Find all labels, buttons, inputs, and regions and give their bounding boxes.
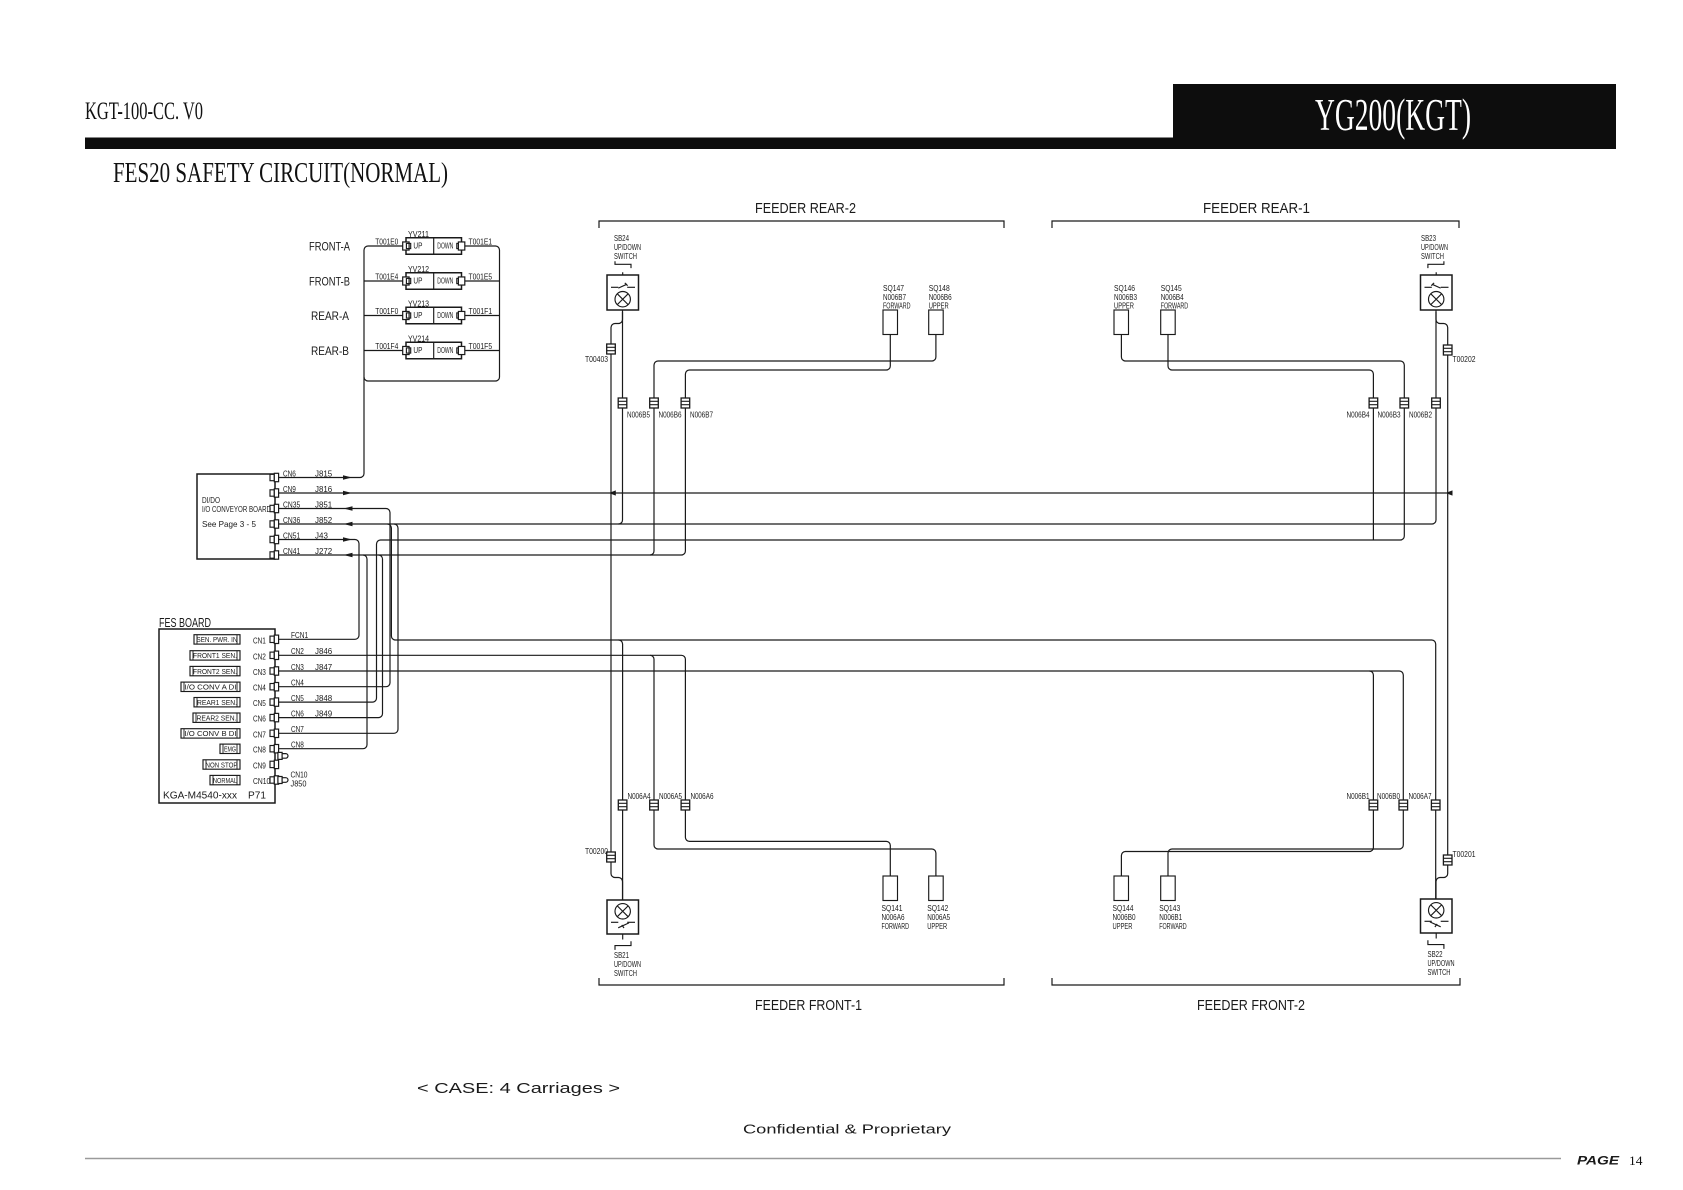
label box FRONT2 SEN. (CN3) bbox=[190, 666, 240, 676]
wire valve right rail and bottom return bbox=[364, 246, 500, 381]
switch SB22 bbox=[1421, 899, 1453, 933]
pin CN9 connector bbox=[270, 760, 279, 768]
pin CN51 bbox=[270, 535, 279, 543]
svg-text:UPPER: UPPER bbox=[1113, 922, 1133, 931]
solenoid valve YV214 bbox=[403, 334, 465, 359]
svg-text:DOWN: DOWN bbox=[437, 311, 453, 320]
wire valve left rail row segments bbox=[364, 281, 403, 351]
connector N006A4 bbox=[618, 800, 627, 810]
svg-text:CN4: CN4 bbox=[291, 678, 304, 688]
svg-text:SQ144: SQ144 bbox=[1113, 904, 1134, 913]
svg-text:N006A5: N006A5 bbox=[927, 913, 950, 922]
footer rule bbox=[85, 1158, 1561, 1160]
switch SB21 operator bbox=[615, 934, 631, 950]
pin CN41 bbox=[270, 551, 279, 559]
svg-text:YV211: YV211 bbox=[408, 229, 429, 239]
svg-text:P71: P71 bbox=[248, 791, 266, 802]
wire J852 CN36 to N006B2/SB23 bbox=[278, 312, 1436, 524]
wire J851 CN35 to CN4 bbox=[278, 509, 390, 687]
svg-text:J272: J272 bbox=[315, 546, 332, 556]
svg-text:CN51: CN51 bbox=[283, 530, 300, 540]
connector T00201 bbox=[1443, 855, 1452, 865]
wire SB24 lamp to J852 row via N006B5 bbox=[619, 312, 623, 524]
svg-text:CN35: CN35 bbox=[283, 499, 300, 509]
svg-text:N006B1: N006B1 bbox=[1159, 913, 1182, 922]
svg-text:NON STOP: NON STOP bbox=[206, 760, 238, 769]
FES board bbox=[159, 629, 275, 803]
pin CN6 bbox=[270, 473, 279, 481]
svg-text:DOWN: DOWN bbox=[437, 242, 453, 251]
connector N006A7 bbox=[1431, 800, 1440, 810]
wire J846 CN2 to N006A6/SQ141 bbox=[278, 655, 890, 876]
svg-text:CN4: CN4 bbox=[253, 683, 266, 693]
svg-text:T001F0: T001F0 bbox=[375, 306, 398, 316]
svg-text:UP/DOWN: UP/DOWN bbox=[614, 960, 641, 969]
svg-text:N006B7: N006B7 bbox=[690, 411, 713, 420]
svg-text:< CASE: 4 Carriages >: < CASE: 4 Carriages > bbox=[417, 1080, 620, 1097]
svg-text:FEEDER REAR-2: FEEDER REAR-2 bbox=[755, 200, 856, 217]
wire J816 bus CN9 to switch chains bbox=[278, 492, 1448, 494]
svg-text:T001F4: T001F4 bbox=[375, 341, 398, 351]
svg-text:SQ148: SQ148 bbox=[929, 284, 950, 293]
pin CN6 connector bbox=[270, 713, 279, 721]
svg-text:SB22: SB22 bbox=[1428, 950, 1443, 959]
wire N006B1 to SQ144 bbox=[1121, 671, 1373, 876]
label box EMG (CN8) bbox=[220, 744, 240, 754]
label box REAR2 SEN. (CN6) bbox=[193, 713, 240, 723]
connector N006B1 bbox=[1369, 800, 1378, 810]
svg-text:14: 14 bbox=[1629, 1153, 1643, 1168]
junction J816/T00202 chain bbox=[1446, 490, 1453, 495]
svg-text:SWITCH: SWITCH bbox=[614, 969, 637, 978]
arrow on J43 wire bbox=[343, 537, 352, 541]
svg-text:PAGE: PAGE bbox=[1577, 1156, 1619, 1168]
svg-text:REAR-B: REAR-B bbox=[311, 346, 349, 358]
connector N006B3 bbox=[1400, 398, 1409, 408]
pin CN4 connector bbox=[270, 683, 279, 691]
svg-text:N006B3: N006B3 bbox=[1378, 411, 1401, 420]
svg-text:DOWN: DOWN bbox=[437, 346, 453, 355]
svg-text:SQ141: SQ141 bbox=[882, 904, 903, 913]
svg-text:FORWARD: FORWARD bbox=[1159, 922, 1187, 931]
svg-text:REAR-A: REAR-A bbox=[311, 311, 349, 323]
pin CN10 connector bbox=[270, 776, 279, 784]
svg-text:CN8: CN8 bbox=[253, 745, 266, 755]
svg-text:T00200: T00200 bbox=[585, 847, 608, 856]
svg-text:DOWN: DOWN bbox=[437, 277, 453, 286]
svg-text:EMG: EMG bbox=[224, 745, 236, 754]
svg-text:J43: J43 bbox=[315, 530, 328, 540]
pin CN35 bbox=[270, 504, 279, 512]
wire N006A5 to SQ142 bbox=[650, 655, 936, 876]
wire SB23 through T00202 chain to SB22 bbox=[1436, 310, 1448, 899]
header bar bbox=[85, 138, 1616, 150]
DI/DO I/O conveyor board bbox=[197, 474, 275, 559]
svg-text:CN9: CN9 bbox=[253, 760, 266, 770]
svg-text:FRONT2 SEN.: FRONT2 SEN. bbox=[193, 667, 237, 676]
feeder front-1 bracket bbox=[599, 978, 1004, 985]
svg-text:SB23: SB23 bbox=[1421, 234, 1436, 243]
svg-text:CN6: CN6 bbox=[283, 468, 296, 478]
svg-text:CN8: CN8 bbox=[291, 740, 304, 750]
svg-text:SQ147: SQ147 bbox=[883, 284, 904, 293]
arrow on J272 wire bbox=[344, 553, 353, 557]
svg-text:CN2: CN2 bbox=[253, 651, 266, 661]
svg-text:CN36: CN36 bbox=[283, 515, 300, 525]
wire J848 CN5 to rear-1 sensors bbox=[278, 335, 1404, 703]
svg-text:N006B5: N006B5 bbox=[627, 411, 650, 420]
svg-text:J850: J850 bbox=[291, 779, 307, 789]
svg-text:N006B1: N006B1 bbox=[1347, 792, 1370, 801]
svg-text:CN1: CN1 bbox=[253, 635, 266, 645]
svg-text:T001E4: T001E4 bbox=[375, 271, 398, 281]
svg-text:N006A5: N006A5 bbox=[659, 792, 682, 801]
sensor SQ142 bbox=[929, 876, 944, 901]
svg-text:J852: J852 bbox=[315, 515, 332, 525]
pin CN7 connector bbox=[270, 729, 279, 737]
header title block YG200(KGT) bbox=[1173, 84, 1616, 149]
svg-text:N006B4: N006B4 bbox=[1347, 411, 1370, 420]
svg-text:N006A7: N006A7 bbox=[1409, 792, 1432, 801]
plug stub on CN10 bbox=[278, 777, 288, 784]
svg-text:FES BOARD: FES BOARD bbox=[159, 616, 211, 630]
sensor SQ141 bbox=[883, 876, 898, 901]
wire CN6 J815 to valve left rail bbox=[278, 246, 403, 478]
svg-text:J848: J848 bbox=[315, 693, 332, 703]
junction J816/T00403 chain bbox=[609, 490, 616, 495]
svg-text:T00201: T00201 bbox=[1453, 850, 1476, 859]
svg-text:UPPER: UPPER bbox=[1114, 302, 1134, 311]
wire J852 branch to CN7 bbox=[278, 524, 398, 733]
switch SB24 bbox=[607, 275, 639, 310]
svg-text:T00202: T00202 bbox=[1453, 355, 1476, 364]
svg-text:UP: UP bbox=[413, 346, 422, 355]
svg-text:T001E0: T001E0 bbox=[375, 236, 398, 246]
wire N006B4 to SQ145 bbox=[1168, 335, 1373, 541]
pin CN9 bbox=[270, 489, 279, 497]
wire N006B6 to SQ148 bbox=[650, 335, 936, 556]
svg-text:J846: J846 bbox=[315, 646, 332, 656]
svg-text:CN6: CN6 bbox=[291, 708, 304, 718]
svg-text:CN5: CN5 bbox=[253, 698, 266, 708]
svg-text:N006A6: N006A6 bbox=[691, 792, 714, 801]
svg-text:CN5: CN5 bbox=[291, 693, 304, 703]
svg-text:YG200(KGT): YG200(KGT) bbox=[1315, 90, 1471, 140]
svg-text:N006A6: N006A6 bbox=[882, 913, 905, 922]
label box I/O CONV B DI (CN7) bbox=[181, 729, 240, 739]
svg-text:T00403: T00403 bbox=[585, 355, 608, 364]
switch SB21 bbox=[607, 900, 639, 934]
svg-text:SQ143: SQ143 bbox=[1159, 904, 1180, 913]
svg-text:FCN1: FCN1 bbox=[291, 630, 308, 640]
feeder rear-2 bracket bbox=[599, 221, 1004, 228]
svg-text:J847: J847 bbox=[315, 662, 332, 672]
svg-text:SQ142: SQ142 bbox=[927, 904, 948, 913]
svg-text:UP: UP bbox=[413, 242, 422, 251]
connector T00202 bbox=[1443, 345, 1452, 355]
svg-text:FEEDER FRONT-2: FEEDER FRONT-2 bbox=[1197, 997, 1305, 1014]
svg-text:N006B0: N006B0 bbox=[1113, 913, 1136, 922]
svg-text:CN9: CN9 bbox=[283, 484, 296, 494]
connector N006B0 bbox=[1399, 800, 1408, 810]
svg-text:I/O CONV B DI: I/O CONV B DI bbox=[185, 729, 237, 738]
svg-text:Confidential & Proprietary: Confidential & Proprietary bbox=[743, 1122, 952, 1137]
svg-text:CN7: CN7 bbox=[253, 729, 266, 739]
svg-text:N006B0: N006B0 bbox=[1377, 792, 1400, 801]
svg-text:UPPER: UPPER bbox=[927, 922, 947, 931]
pin CN5 connector bbox=[270, 698, 279, 706]
switch SB23 bbox=[1421, 275, 1453, 310]
wire sensor power row to SB21/SB22 lamps bbox=[387, 524, 1435, 899]
svg-text:CN10: CN10 bbox=[253, 776, 270, 786]
connector T00403 bbox=[607, 344, 616, 354]
connector T00200 bbox=[607, 852, 616, 862]
svg-text:I/O CONV A DI: I/O CONV A DI bbox=[185, 683, 237, 692]
label box FRONT1 SEN. (CN2) bbox=[190, 651, 240, 661]
connector N006B6 bbox=[650, 398, 659, 408]
svg-text:N006B6: N006B6 bbox=[659, 411, 682, 420]
svg-text:SQ146: SQ146 bbox=[1114, 284, 1135, 293]
svg-text:T001F5: T001F5 bbox=[469, 341, 493, 351]
svg-text:N006A4: N006A4 bbox=[628, 792, 651, 801]
svg-text:CN3: CN3 bbox=[291, 662, 304, 672]
svg-text:UP/DOWN: UP/DOWN bbox=[1421, 243, 1448, 252]
arrow on J816 wire bbox=[343, 491, 352, 495]
svg-text:SB21: SB21 bbox=[614, 951, 629, 960]
arrow on J852 wire bbox=[344, 522, 353, 526]
svg-text:UP/DOWN: UP/DOWN bbox=[614, 243, 641, 252]
sensor SQ144 bbox=[1114, 876, 1129, 901]
arrow on J815 wire bbox=[343, 475, 352, 479]
svg-text:CN6: CN6 bbox=[253, 714, 266, 724]
svg-text:NORMAL: NORMAL bbox=[213, 776, 237, 785]
switch SB23 operator bbox=[1428, 261, 1444, 275]
pin CN36 bbox=[270, 520, 279, 528]
connector N006B4 bbox=[1369, 398, 1378, 408]
svg-text:SQ145: SQ145 bbox=[1161, 284, 1182, 293]
svg-text:J816: J816 bbox=[315, 484, 332, 494]
connector N006B5 bbox=[618, 398, 627, 408]
switch SB24 operator bbox=[615, 261, 631, 275]
connector N006A6 bbox=[681, 800, 690, 810]
sensor SQ143 bbox=[1161, 876, 1176, 901]
svg-text:UP: UP bbox=[413, 277, 422, 286]
svg-text:REAR2 SEN.: REAR2 SEN. bbox=[197, 714, 237, 723]
svg-text:N006B2: N006B2 bbox=[1409, 411, 1432, 420]
pin CN3 connector bbox=[270, 667, 279, 675]
svg-text:SEN. PWR. IN: SEN. PWR. IN bbox=[197, 635, 238, 644]
svg-text:FRONT-A: FRONT-A bbox=[309, 242, 350, 254]
svg-text:FRONT-B: FRONT-B bbox=[309, 277, 350, 289]
label box I/O CONV A DI (CN4) bbox=[181, 682, 240, 692]
svg-text:UP/DOWN: UP/DOWN bbox=[1428, 959, 1455, 968]
wire branch to SB21 lamp bbox=[619, 640, 623, 900]
svg-text:T001F1: T001F1 bbox=[469, 306, 493, 316]
feeder front-2 bracket bbox=[1052, 978, 1460, 985]
svg-text:KGT-100-CC. V0: KGT-100-CC. V0 bbox=[85, 98, 203, 125]
svg-text:J815: J815 bbox=[315, 468, 332, 478]
sensor SQ145 bbox=[1161, 310, 1176, 335]
wire branch to CN8 EMG bbox=[278, 555, 367, 749]
switch SB22 operator bbox=[1428, 933, 1444, 949]
svg-text:FORWARD: FORWARD bbox=[1161, 302, 1189, 311]
connector N006A5 bbox=[650, 800, 659, 810]
svg-text:YV213: YV213 bbox=[408, 299, 429, 309]
svg-text:KGA-M4540-xxx: KGA-M4540-xxx bbox=[163, 791, 237, 802]
wire J43 CN51 to FCN1 bbox=[278, 540, 359, 640]
label box NORMAL (CN10) bbox=[210, 775, 240, 785]
connector N006B2 bbox=[1432, 398, 1441, 408]
svg-text:SB24: SB24 bbox=[614, 234, 629, 243]
plug stub below CN8 bbox=[278, 752, 288, 759]
wire J272 row to N006B7/SQ147 bbox=[278, 335, 890, 556]
svg-text:CN7: CN7 bbox=[291, 724, 304, 734]
svg-text:FORWARD: FORWARD bbox=[882, 922, 910, 931]
pin CN8 connector bbox=[270, 745, 279, 753]
svg-text:See Page 3 - 5: See Page 3 - 5 bbox=[202, 519, 256, 529]
pin CN1 connector bbox=[270, 635, 279, 643]
pin CN2 connector bbox=[270, 651, 279, 659]
svg-text:FORWARD: FORWARD bbox=[883, 302, 911, 311]
solenoid valve YV213 bbox=[403, 299, 465, 324]
wire SB24 through T00403 chain to SB21 bbox=[611, 310, 623, 900]
svg-text:FEEDER FRONT-1: FEEDER FRONT-1 bbox=[755, 997, 862, 1014]
sensor SQ147 bbox=[883, 310, 898, 335]
svg-text:REAR1 SEN.: REAR1 SEN. bbox=[197, 698, 237, 707]
svg-text:FEEDER REAR-1: FEEDER REAR-1 bbox=[1203, 200, 1310, 217]
svg-text:T001E1: T001E1 bbox=[469, 236, 493, 246]
solenoid valve YV211 bbox=[403, 229, 465, 254]
svg-text:I/O CONVEYOR BOARD: I/O CONVEYOR BOARD bbox=[202, 504, 271, 514]
arrow on J851 wire bbox=[344, 506, 353, 510]
svg-text:UPPER: UPPER bbox=[929, 302, 949, 311]
svg-text:J851: J851 bbox=[315, 499, 332, 509]
label box REAR1 SEN. (CN5) bbox=[194, 698, 240, 708]
svg-text:FES20 SAFETY CIRCUIT(NORMAL): FES20 SAFETY CIRCUIT(NORMAL) bbox=[113, 157, 448, 189]
svg-text:YV212: YV212 bbox=[408, 264, 429, 274]
svg-text:YV214: YV214 bbox=[408, 334, 429, 344]
feeder rear-1 bracket bbox=[1052, 221, 1459, 228]
wire J847 CN3 to N006B0/SQ143 bbox=[278, 671, 1403, 876]
svg-text:UP: UP bbox=[413, 311, 422, 320]
sensor SQ148 bbox=[929, 310, 944, 335]
svg-text:CN2: CN2 bbox=[291, 646, 304, 656]
label box NON STOP (CN9) bbox=[203, 760, 240, 770]
solenoid valve YV212 bbox=[403, 264, 465, 289]
sensor SQ146 bbox=[1114, 310, 1129, 335]
svg-text:CN3: CN3 bbox=[253, 667, 266, 677]
svg-text:SWITCH: SWITCH bbox=[1421, 252, 1444, 261]
svg-text:CN41: CN41 bbox=[283, 546, 300, 556]
connector N006B7 bbox=[681, 398, 690, 408]
svg-text:FRONT1 SEN.: FRONT1 SEN. bbox=[193, 651, 237, 660]
wire branch to CN6 J849 bbox=[278, 555, 383, 718]
wire valve right rail row segments bbox=[465, 281, 500, 351]
svg-text:J849: J849 bbox=[315, 708, 332, 718]
label box SEN. PWR. IN (CN1) bbox=[194, 635, 240, 645]
svg-text:SWITCH: SWITCH bbox=[614, 252, 637, 261]
svg-text:SWITCH: SWITCH bbox=[1428, 968, 1451, 977]
svg-text:T001E5: T001E5 bbox=[469, 271, 493, 281]
